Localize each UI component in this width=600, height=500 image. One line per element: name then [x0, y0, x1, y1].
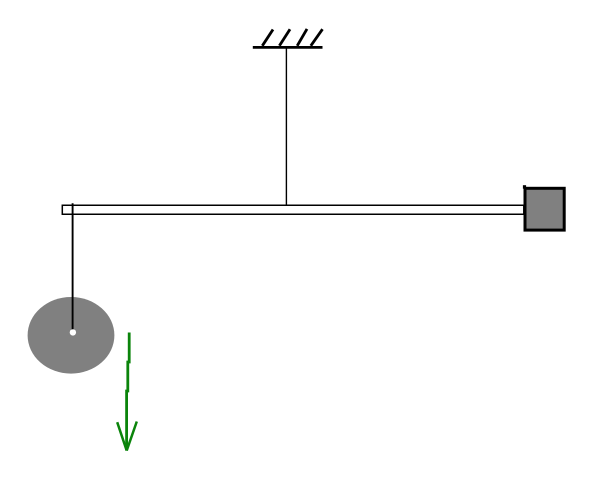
- vertical rod from support to beam: [285, 47, 287, 206]
- support hatch 4: [311, 29, 323, 46]
- support hatch 1: [262, 30, 273, 46]
- string from beam left end to pulley center: [72, 203, 74, 332]
- block mass on right end: [525, 188, 564, 230]
- support hatch 3: [297, 29, 307, 46]
- pulley hub hole: [70, 329, 76, 335]
- support hatch 2: [279, 29, 290, 46]
- green arrowhead left barb: [117, 422, 127, 450]
- beam (horizontal lever, outlined rectangle): [62, 205, 524, 214]
- green arrowhead right barb: [127, 422, 137, 451]
- pulley disk: [28, 297, 115, 374]
- green force arrow shaft: [127, 333, 130, 451]
- fixed support ceiling line: [253, 46, 323, 49]
- block corner nub: [523, 185, 526, 189]
